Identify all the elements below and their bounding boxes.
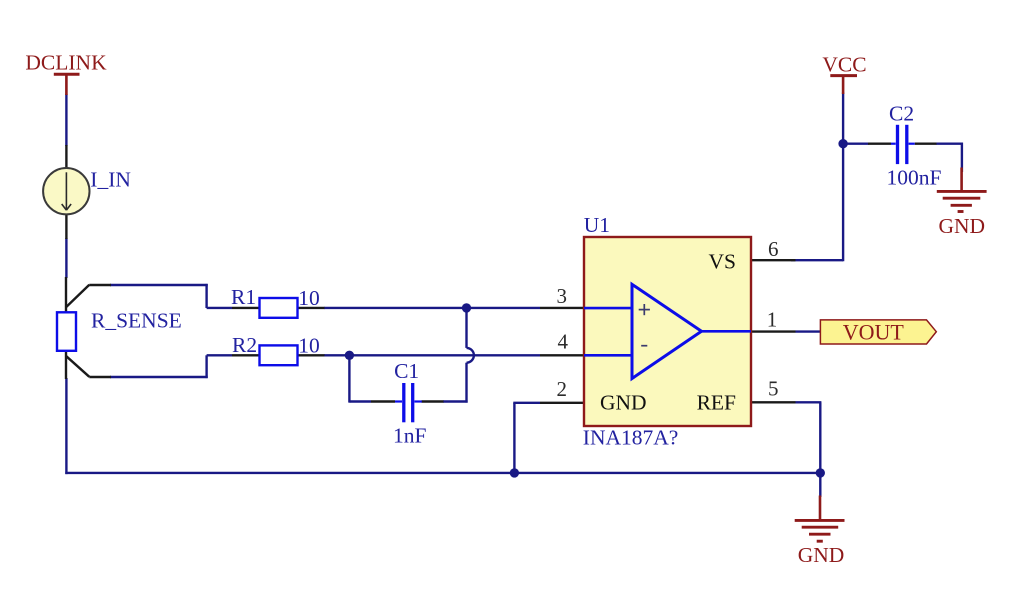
svg-text:C1: C1 [394,359,419,383]
svg-text:REF: REF [697,391,736,415]
svg-text:1nF: 1nF [393,423,427,447]
svg-text:2: 2 [556,377,567,401]
svg-text:INA187A?: INA187A? [583,426,679,450]
svg-text:R2: R2 [232,333,257,357]
svg-text:R1: R1 [231,285,256,309]
svg-text:VCC: VCC [822,53,866,77]
svg-text:GND: GND [798,543,845,567]
svg-text:VOUT: VOUT [843,320,905,345]
svg-text:1: 1 [767,308,778,332]
svg-text:3: 3 [556,284,567,308]
svg-text:10: 10 [298,286,320,310]
svg-text:5: 5 [768,376,779,400]
svg-text:GND: GND [939,214,986,238]
svg-text:I_IN: I_IN [90,167,131,191]
svg-text:U1: U1 [584,213,610,237]
svg-text:100nF: 100nF [887,166,942,190]
svg-text:R_SENSE: R_SENSE [91,308,182,332]
svg-text:C2: C2 [889,101,914,125]
svg-text:10: 10 [298,334,320,358]
svg-text:DCLINK: DCLINK [25,51,107,75]
svg-text:GND: GND [600,391,647,415]
svg-text:4: 4 [557,330,568,354]
svg-text:6: 6 [768,237,779,261]
svg-text:VS: VS [709,249,736,273]
